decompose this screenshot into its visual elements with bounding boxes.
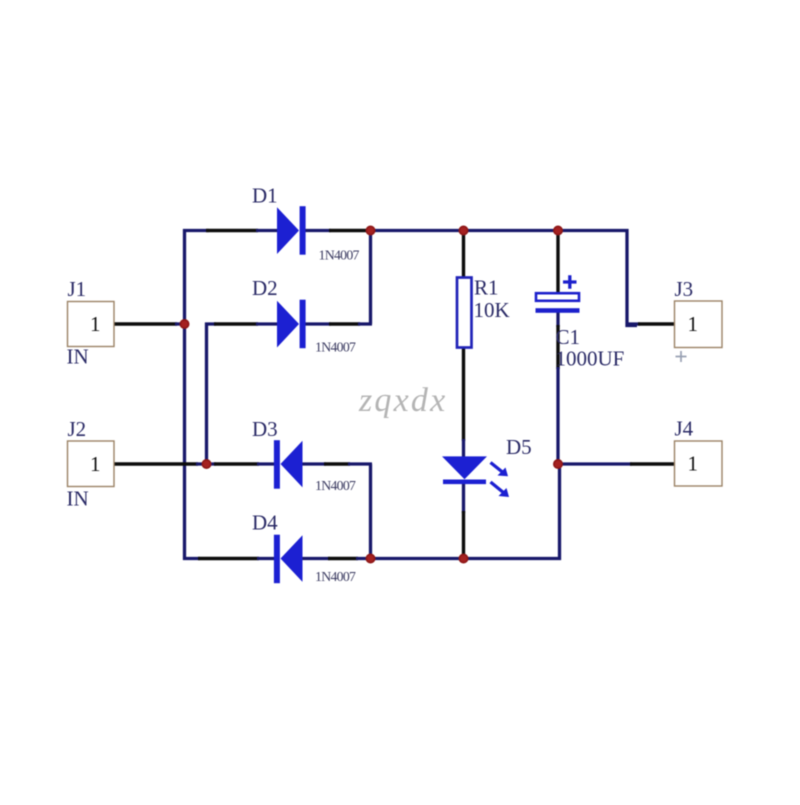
wire D4 cathode pin blue tip bbox=[257, 557, 275, 560]
wire C1 top pin bbox=[556, 229, 559, 294]
label + (J3 polarity) bbox=[676, 351, 687, 362]
wire D2 cathode to x=370 corner bbox=[358, 322, 372, 325]
junction D3/D4 anodes bbox=[366, 554, 376, 564]
wire D3 cathode stub bbox=[205, 462, 216, 465]
wire D2 anode pin bbox=[214, 322, 258, 325]
wire J3 pin bbox=[638, 322, 675, 325]
svg-text:1N4007: 1N4007 bbox=[315, 340, 356, 355]
svg-text:1N4007: 1N4007 bbox=[319, 248, 360, 263]
svg-text:J1: J1 bbox=[68, 277, 87, 301]
svg-text:IN: IN bbox=[67, 344, 89, 368]
watermark zqxdx bbox=[356, 380, 447, 419]
wire J3 pin blue stub bbox=[627, 322, 640, 325]
svg-text:IN: IN bbox=[67, 486, 89, 510]
wire R1 top pin bbox=[462, 229, 465, 277]
svg-text:1: 1 bbox=[90, 452, 101, 476]
wire D2 anode stub from x=206 corner bbox=[205, 322, 216, 325]
connector J3 bbox=[675, 301, 723, 348]
wire D4 cathode pin bbox=[198, 557, 259, 560]
wire vertical x=206 (J2 to D2 row) bbox=[205, 323, 208, 466]
wire D3 anode pin blue tip bbox=[302, 462, 326, 465]
svg-text:1: 1 bbox=[90, 312, 101, 336]
wire top rail y=230 (blue part) bbox=[366, 229, 629, 232]
wire C1 to J4 node (blue) bbox=[556, 367, 559, 465]
junction D1/D2 cathodes bbox=[366, 226, 376, 236]
wire D1 anode pin blue tip bbox=[256, 229, 277, 232]
wire D3 anode pin bbox=[324, 462, 350, 465]
junction D5 bottom bbox=[459, 554, 469, 564]
diode D3 bbox=[274, 440, 303, 489]
connector J2 bbox=[68, 441, 115, 487]
wire D1 anode pin bbox=[206, 229, 258, 232]
wire C1 bottom blue stub bbox=[556, 311, 559, 327]
diode D2 bbox=[277, 300, 306, 349]
svg-text:J4: J4 bbox=[675, 417, 694, 441]
svg-text:R1: R1 bbox=[474, 276, 499, 300]
wire bottom rail y=558 (blue) bbox=[356, 462, 560, 559]
connector J1 bbox=[68, 302, 115, 347]
wire top rail blue stub at corner bbox=[183, 229, 209, 232]
connector J4 bbox=[675, 441, 723, 486]
svg-text:J2: J2 bbox=[68, 417, 87, 441]
wire D1 cathode pin blue tip bbox=[305, 229, 331, 232]
wire D3 cathode pin blue tip bbox=[257, 462, 275, 465]
wire vertical x=627 (top rail to J3) bbox=[627, 229, 637, 326]
wire R1 bottom pin bbox=[462, 348, 465, 441]
svg-text:D2: D2 bbox=[252, 276, 278, 300]
resistor R1 bbox=[457, 278, 472, 348]
wire J2 pin bbox=[114, 462, 198, 465]
svg-text:1: 1 bbox=[688, 312, 699, 336]
svg-text:D3: D3 bbox=[252, 417, 278, 441]
wire vertical x=370 (D3/D4 anodes) bbox=[369, 464, 372, 560]
diode D4 bbox=[274, 535, 303, 584]
wire D1 cathode pin bbox=[329, 229, 366, 232]
wire D5 cathode pin bbox=[462, 511, 465, 559]
junction J1-bus bbox=[180, 319, 190, 329]
wire D4 anode pin blue tip bbox=[302, 557, 330, 560]
wire D5 anode pin blue tip bbox=[462, 439, 465, 457]
wire C1 bottom pin bbox=[556, 325, 559, 369]
wire J4 run (blue) bbox=[557, 462, 633, 465]
svg-text:1N4007: 1N4007 bbox=[315, 569, 356, 584]
svg-text:zqxdx: zqxdx bbox=[358, 382, 447, 419]
svg-text:1N4007: 1N4007 bbox=[315, 478, 356, 493]
wire D3 cathode pin bbox=[214, 462, 259, 465]
LED D5 bbox=[442, 456, 509, 497]
wire J2 pin blue tip bbox=[196, 462, 208, 465]
svg-text:D5: D5 bbox=[506, 435, 532, 459]
wire D2 anode pin blue tip bbox=[256, 322, 277, 325]
wire J1 pin bbox=[114, 322, 177, 325]
wire D2 cathode pin bbox=[329, 322, 360, 325]
wire vertical left bus x=184 (J1 to D1/D4 rows) bbox=[183, 229, 186, 560]
diode D1 bbox=[277, 206, 306, 255]
junction R1 top bbox=[459, 226, 469, 236]
wire J4 pin bbox=[630, 462, 675, 465]
junction J2-bus bbox=[202, 459, 212, 469]
junction C1 top bbox=[553, 226, 563, 236]
junction J4 node bbox=[553, 459, 563, 469]
wire D2 cathode pin blue tip bbox=[305, 322, 331, 325]
wire J1 pin blue tip bbox=[175, 322, 186, 325]
wire D3 anode to x=370 corner bbox=[348, 462, 372, 465]
capacitor C1 bbox=[536, 275, 580, 313]
svg-text:J3: J3 bbox=[675, 277, 694, 301]
wire D4 anode pin bbox=[328, 557, 358, 560]
svg-text:D4: D4 bbox=[252, 511, 278, 535]
wire bottom rail blue stub at left corner bbox=[183, 557, 200, 560]
wire vertical x=370 (D1/D2 cathodes) bbox=[369, 229, 372, 324]
svg-text:D1: D1 bbox=[252, 184, 278, 208]
svg-text:C1: C1 bbox=[556, 325, 581, 349]
svg-text:1000UF: 1000UF bbox=[556, 347, 625, 371]
wire D5 cathode blue stub bbox=[462, 483, 465, 513]
svg-text:10K: 10K bbox=[474, 298, 510, 322]
svg-text:1: 1 bbox=[688, 452, 699, 476]
